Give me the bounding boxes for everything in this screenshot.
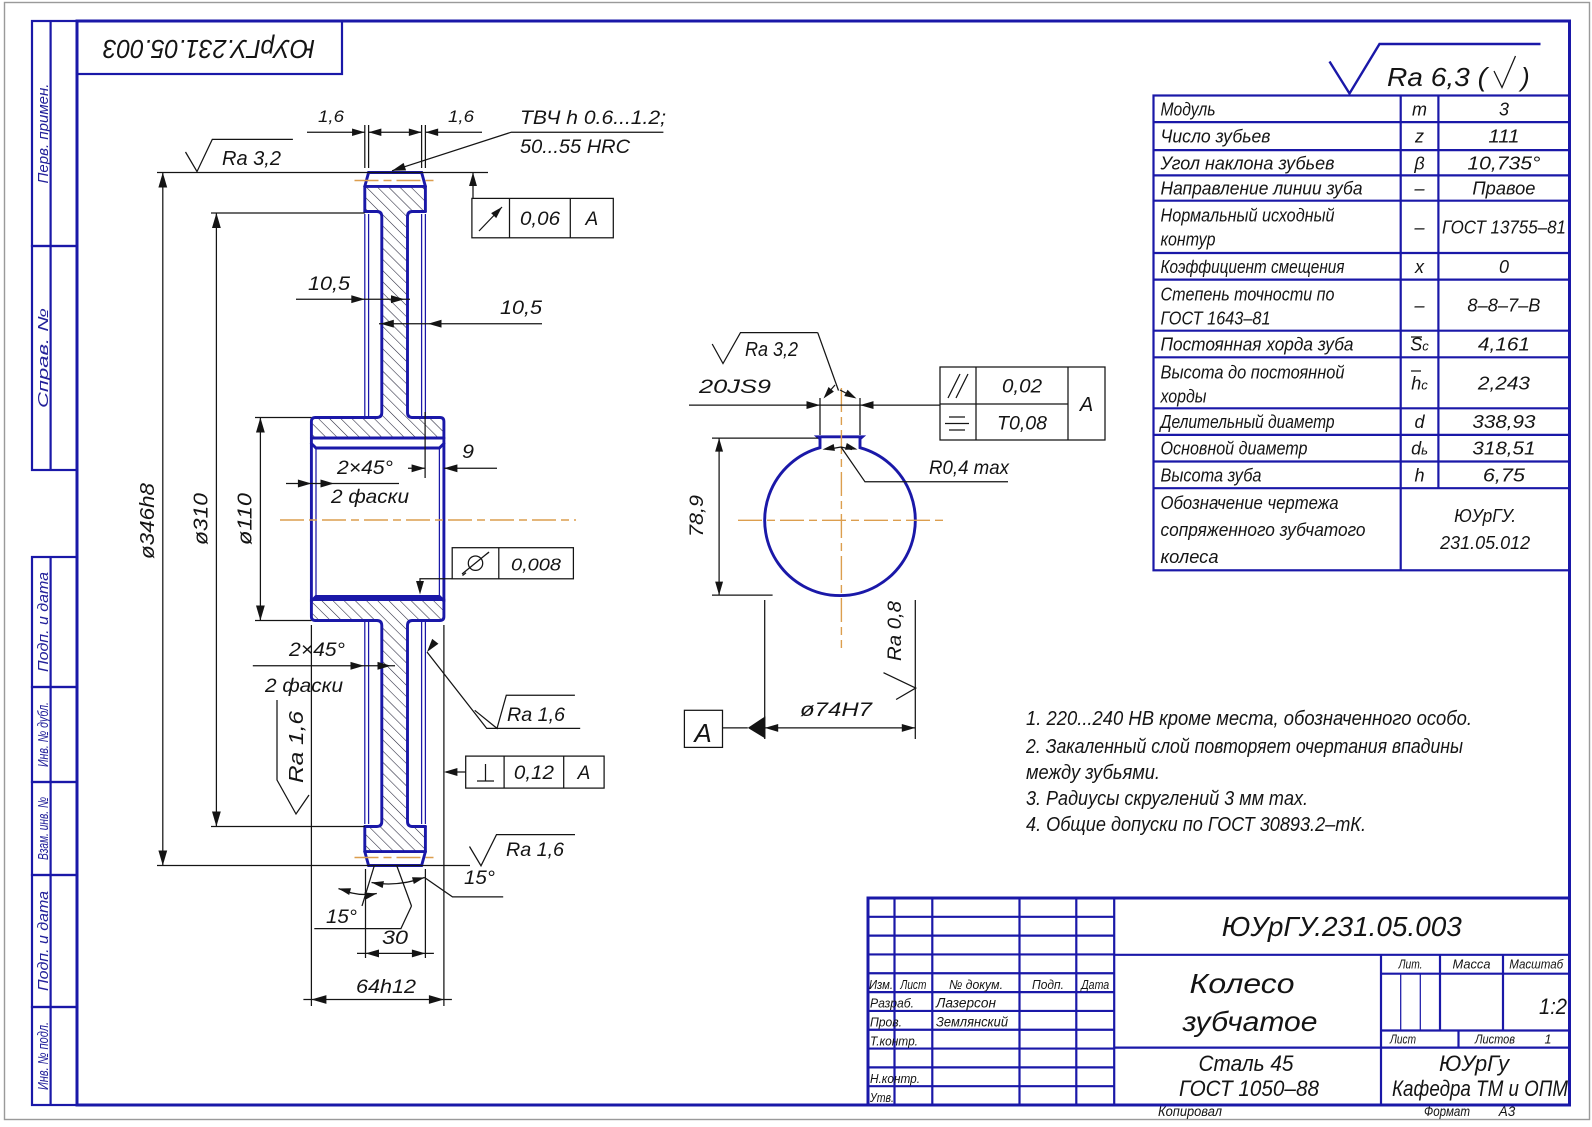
svg-text:0,06: 0,06 — [520, 209, 560, 230]
bore bottom edge with chamfers — [311, 597, 444, 602]
hatched section: upper region — [311, 186, 444, 438]
svg-text:Модуль: Модуль — [1161, 99, 1216, 119]
detail centerline horizontal — [738, 519, 945, 521]
dimension Ø346h8 — [162, 173, 164, 866]
hatched section: lower region — [311, 600, 444, 852]
leader for 0,008 frame — [420, 579, 452, 590]
svg-text:20JS9: 20JS9 — [698, 377, 772, 398]
hub outline — [311, 418, 376, 621]
svg-text:ø310: ø310 — [191, 493, 213, 545]
margin box Инв. № дубл. 687 — [32, 687, 77, 782]
svg-text:Лист: Лист — [900, 978, 927, 992]
svg-text:R0,4 mах: R0,4 mах — [929, 458, 1010, 479]
angle 15 deg left: chamfer extension, arc, shelf — [362, 865, 375, 906]
svg-text:Т.контр.: Т.контр. — [870, 1033, 918, 1048]
svg-text:А: А — [692, 718, 711, 748]
roughness Ra 3,2 detail with leader — [712, 333, 818, 364]
svg-text:Высота до постоянной: Высота до постоянной — [1161, 362, 1345, 382]
dimension 30 — [365, 869, 367, 958]
svg-text:Справ. №: Справ. № — [36, 308, 52, 408]
svg-text:111: 111 — [1488, 127, 1519, 147]
svg-text:4. Общие допуски по ГОСТ 30893: 4. Общие допуски по ГОСТ 30893.2–mК. — [1026, 813, 1366, 836]
dimension 2x45 lower — [253, 665, 395, 667]
svg-text:8–8–7–В: 8–8–7–В — [1467, 296, 1540, 316]
svg-text:ø110: ø110 — [235, 493, 257, 545]
svg-text:ЮУрГУ.: ЮУрГУ. — [1454, 506, 1516, 526]
svg-text:1,6: 1,6 — [448, 107, 475, 126]
bore chamfer vertical thin lines — [315, 449, 317, 596]
svg-text:между зубьями.: между зубьями. — [1026, 761, 1160, 784]
svg-text:Дата: Дата — [1080, 977, 1110, 992]
tooth tip top (with chamfers) — [365, 173, 426, 187]
svg-text:Правое: Правое — [1472, 179, 1535, 199]
svg-text:Ra 1,6: Ra 1,6 — [506, 840, 564, 861]
dimension 20JS9 — [819, 398, 821, 435]
keyway bottom line (section through keyway) — [311, 437, 444, 440]
extension lines Ø310 — [211, 212, 365, 214]
dimension 2x45 upper (bore chamfers) — [286, 483, 399, 485]
leader for 0,12 frame — [446, 771, 466, 773]
svg-text:№ докум.: № докум. — [949, 977, 1003, 992]
detail centerline vertical — [840, 388, 842, 648]
svg-text:Подп. и дата: Подп. и дата — [36, 891, 52, 991]
svg-text:Листов: Листов — [1474, 1033, 1515, 1047]
svg-text:–: – — [1414, 179, 1426, 199]
svg-text:Землянский: Землянский — [936, 1014, 1008, 1029]
svg-text:30: 30 — [382, 928, 409, 949]
svg-text:1. 220...240 НВ кроме места, о: 1. 220...240 НВ кроме места, обозначенно… — [1026, 707, 1472, 730]
svg-text:Ra 1,6: Ra 1,6 — [507, 705, 565, 726]
svg-text:338,93: 338,93 — [1472, 412, 1535, 432]
svg-text:Нормальный исходный: Нормальный исходный — [1161, 206, 1335, 226]
svg-text:10,735°: 10,735° — [1467, 153, 1540, 173]
svg-text:Перв. примен.: Перв. примен. — [36, 84, 52, 184]
pitch centerline bottom (orange) — [355, 857, 439, 859]
svg-text:Ra 6,3 (: Ra 6,3 ( — [1387, 62, 1490, 92]
svg-text:d: d — [1415, 412, 1426, 432]
dimension 9 — [424, 412, 426, 478]
svg-text:6,75: 6,75 — [1483, 465, 1526, 485]
rim sides top — [363, 186, 366, 211]
roughness Ra 3,2 top left — [186, 139, 293, 171]
svg-text:2,243: 2,243 — [1477, 373, 1530, 393]
extension lines Ø110 — [255, 417, 311, 419]
svg-text:3. Радиусы скруглений 3 мм mах: 3. Радиусы скруглений 3 мм mах. — [1026, 787, 1308, 810]
dimension Ø110 — [259, 418, 261, 621]
roughness Ra 1,6 bottom — [470, 835, 576, 866]
margin box Подп. и дата 875 — [32, 875, 77, 1007]
dimension Ø74H7 — [764, 600, 766, 739]
svg-text:ø346h8: ø346h8 — [137, 483, 159, 559]
extension line tip bottom — [157, 865, 470, 867]
margin box Справ. № 246 — [32, 246, 77, 470]
svg-text:ЮУрГУ.231.05.003: ЮУрГУ.231.05.003 — [1222, 911, 1462, 942]
rim face projection thin lines top — [364, 214, 366, 416]
svg-text:78,9: 78,9 — [687, 495, 708, 537]
tolerance frame 0,008 cylindricity — [452, 548, 573, 579]
svg-text:Основной диаметр: Основной диаметр — [1161, 439, 1308, 459]
svg-text:3: 3 — [1499, 99, 1509, 119]
svg-text:0,008: 0,008 — [511, 555, 561, 575]
leader R0,4 max — [841, 447, 1008, 482]
svg-text:Лазерсон: Лазерсон — [935, 996, 997, 1011]
svg-text:Высота зуба: Высота зуба — [1161, 465, 1262, 485]
svg-text:Делительный диаметр: Делительный диаметр — [1159, 412, 1335, 432]
tolerance frame parallel / symmetry with datum A — [940, 367, 1105, 440]
svg-text:Инв. № дубл.: Инв. № дубл. — [36, 702, 52, 767]
roughness Ra 1,6 rotated left — [277, 700, 309, 814]
bore circle with keyway — [765, 437, 916, 596]
svg-text:А3: А3 — [1498, 1104, 1516, 1119]
svg-text:64h12: 64h12 — [356, 977, 416, 998]
svg-text:0,02: 0,02 — [1002, 377, 1042, 398]
svg-text:ГОСТ 1050–88: ГОСТ 1050–88 — [1179, 1076, 1320, 1101]
root line top — [365, 185, 426, 188]
svg-text:A: A — [584, 209, 598, 230]
svg-text:ТВЧ h 0.6...1.2;: ТВЧ h 0.6...1.2; — [520, 108, 666, 129]
svg-text:Число зубьев: Число зубьев — [1161, 127, 1271, 147]
tolerance frame 0,12 A perpendicularity — [466, 756, 604, 788]
hub bottom band top line — [311, 598, 444, 601]
svg-text:хорды: хорды — [1160, 386, 1207, 406]
section arrow A — [684, 710, 722, 747]
svg-text:Ra 1,6: Ra 1,6 — [286, 710, 308, 783]
svg-text:Разраб.: Разраб. — [870, 996, 914, 1011]
margin box Инв. № подл. 1007 — [32, 1007, 77, 1105]
pitch centerline top (orange) — [355, 180, 439, 182]
svg-text:2 фаски: 2 фаски — [264, 676, 344, 697]
svg-text:Направление линии зуба: Направление линии зуба — [1161, 179, 1363, 199]
svg-text:50...55 HRC: 50...55 HRC — [520, 137, 630, 158]
gear axis centerline (orange) — [280, 519, 576, 521]
svg-text:Формат: Формат — [1424, 1104, 1470, 1119]
svg-text:318,51: 318,51 — [1472, 439, 1535, 459]
dimension 10,5 right — [379, 323, 542, 325]
svg-text:231.05.012: 231.05.012 — [1439, 533, 1530, 553]
svg-text:ЮУрГу: ЮУрГу — [1439, 1051, 1511, 1076]
svg-text:Инв. № подл.: Инв. № подл. — [36, 1022, 52, 1090]
svg-text:Т0,08: Т0,08 — [997, 414, 1047, 435]
svg-text:2 фаски: 2 фаски — [330, 487, 410, 508]
svg-text:Копировал: Копировал — [1158, 1104, 1222, 1119]
svg-text:Пров.: Пров. — [870, 1014, 902, 1029]
svg-text:ЮУрГУ.231.05.003: ЮУрГУ.231.05.003 — [102, 34, 315, 64]
svg-text:0: 0 — [1499, 257, 1509, 277]
leader for 0,06 frame — [472, 173, 474, 199]
leader ТВЧ callout — [392, 132, 663, 171]
svg-text:0,12: 0,12 — [514, 763, 554, 784]
svg-text:4,161: 4,161 — [1478, 335, 1530, 355]
svg-text:2. Закаленный слой повторяет о: 2. Закаленный слой повторяет очертания в… — [1025, 735, 1463, 758]
dimension 78,9 — [712, 437, 818, 439]
rim face projection thin lines bottom — [364, 622, 366, 824]
svg-text:Взам. инв. №: Взам. инв. № — [36, 797, 52, 860]
svg-text:Кафедра ТМ и ОПМ: Кафедра ТМ и ОПМ — [1392, 1076, 1569, 1101]
svg-text:2×45°: 2×45° — [288, 640, 346, 661]
svg-text:Колесо: Колесо — [1190, 968, 1295, 999]
dimension 10,5 left — [296, 298, 410, 300]
svg-text:Утв.: Утв. — [869, 1090, 894, 1105]
svg-text:Масштаб: Масштаб — [1509, 957, 1564, 972]
dimension 64h12 — [310, 625, 312, 1006]
svg-text:Изм.: Изм. — [869, 978, 893, 992]
svg-text:ø74H7: ø74H7 — [800, 700, 874, 721]
svg-text:h: h — [1415, 465, 1425, 485]
margin box Взам. инв. № 782 — [32, 782, 77, 875]
dimension Ø310 — [215, 213, 217, 827]
bore top edge with chamfers — [311, 444, 444, 449]
svg-text:Н.контр.: Н.контр. — [870, 1071, 920, 1086]
svg-text:10,5: 10,5 — [308, 274, 350, 295]
svg-text:Лит.: Лит. — [1398, 957, 1423, 972]
svg-text:ГОСТ 1643–81: ГОСТ 1643–81 — [1161, 309, 1271, 329]
angle 15 deg right: chamfer extension, arc, leader — [397, 865, 412, 906]
svg-text:зубчатое: зубчатое — [1181, 1006, 1317, 1037]
svg-text:1: 1 — [1545, 1033, 1552, 1047]
svg-text:1:2: 1:2 — [1539, 994, 1567, 1019]
svg-text:–: – — [1414, 296, 1426, 316]
margin box Подп. и дата 557 — [32, 557, 77, 687]
svg-text:Ra 0,8: Ra 0,8 — [885, 601, 906, 661]
svg-text:ГОСТ 13755–81: ГОСТ 13755–81 — [1442, 217, 1566, 237]
svg-text:2×45°: 2×45° — [336, 458, 394, 479]
svg-text:Подп.: Подп. — [1032, 977, 1064, 992]
general roughness Ra 6,3 — [1330, 44, 1541, 94]
roughness Ra 1,6 web right with leader — [427, 652, 580, 728]
svg-text:Коэффициент смещения: Коэффициент смещения — [1161, 257, 1345, 277]
web walls bottom — [365, 621, 382, 827]
tolerance frame 0,06 A (radial runout) — [472, 198, 613, 237]
reversed designation box — [77, 21, 342, 74]
svg-text:Угол наклона зубьев: Угол наклона зубьев — [1160, 153, 1335, 173]
svg-text:Постоянная хорда зуба: Постоянная хорда зуба — [1161, 335, 1354, 355]
svg-text:10,5: 10,5 — [500, 298, 542, 319]
svg-text:9: 9 — [462, 442, 474, 463]
dimension 1,6 right — [424, 125, 426, 168]
svg-text:Сталь 45: Сталь 45 — [1199, 1051, 1295, 1076]
margin box Перв. примен. 21 — [32, 21, 77, 246]
svg-text:Ra 3,2: Ra 3,2 — [745, 339, 798, 361]
svg-text:Степень точности по: Степень точности по — [1161, 285, 1335, 305]
svg-text:1,6: 1,6 — [318, 107, 345, 126]
bottom rim block — [363, 827, 366, 852]
svg-text:–: – — [1414, 217, 1426, 237]
svg-text:сопряженного зубчатого: сопряженного зубчатого — [1161, 520, 1366, 540]
svg-text:x: x — [1414, 257, 1425, 277]
rim bottom edges top — [365, 212, 382, 418]
svg-text:A: A — [577, 763, 591, 784]
svg-text:15°: 15° — [326, 907, 357, 928]
runout symbol arrow head — [491, 205, 504, 219]
svg-text:15°: 15° — [464, 868, 495, 889]
svg-text:z: z — [1414, 127, 1424, 147]
svg-text:β: β — [1413, 153, 1424, 173]
svg-text:Подп. и дата: Подп. и дата — [36, 572, 52, 672]
svg-text:колеса: колеса — [1161, 547, 1219, 567]
svg-text:Обозначение чертежа: Обозначение чертежа — [1161, 493, 1339, 513]
svg-text:m: m — [1412, 99, 1427, 119]
svg-text:Ra 3,2: Ra 3,2 — [222, 148, 281, 170]
svg-text:Масса: Масса — [1453, 957, 1491, 972]
svg-text:А: А — [1079, 394, 1093, 416]
dimension 1,6 left — [364, 125, 366, 168]
roughness Ra 0,8 rotated with leader — [884, 673, 916, 700]
svg-text:контур: контур — [1161, 230, 1216, 250]
svg-text:Лист: Лист — [1389, 1033, 1416, 1047]
extension line tip top — [157, 172, 488, 174]
tooth tip bottom (with chamfers) — [365, 852, 426, 866]
